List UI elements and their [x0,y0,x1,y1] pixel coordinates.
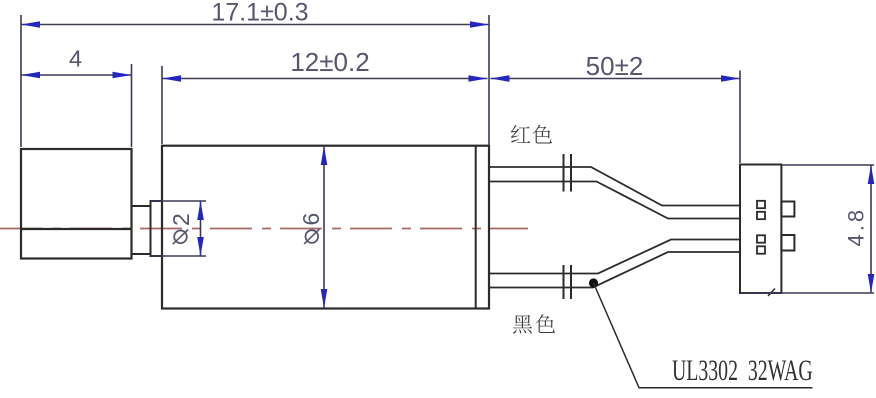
svg-text:17.1±0.3: 17.1±0.3 [211,0,308,27]
svg-text:50±2: 50±2 [586,51,644,81]
svg-text:12±0.2: 12±0.2 [290,47,369,77]
svg-text:2: 2 [168,213,194,226]
svg-text:UL3302 32WAG: UL3302 32WAG [672,354,813,387]
svg-text:6: 6 [298,213,324,226]
svg-text:4.8: 4.8 [844,207,869,247]
svg-text:4: 4 [69,46,82,72]
